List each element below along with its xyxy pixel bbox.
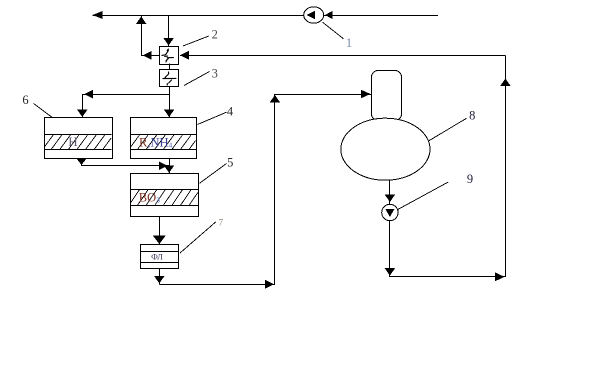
wire: vertical riser left of box 2: [141, 15, 143, 55]
leader line to label 8: [429, 118, 467, 141]
leader line to label 7: [180, 222, 216, 253]
filter vessel 4 (NH4-cation exchanger): [130, 118, 196, 159]
arrowhead: down into pump 9: [385, 195, 395, 202]
svg-text:1: 1: [346, 35, 353, 50]
leader line to label 6: [34, 104, 53, 118]
arrowhead: down into box 4: [164, 110, 174, 117]
filter vessel 5 (anion exchanger BO3): [130, 174, 198, 217]
deaerator tank 8 (ellipse): [341, 118, 430, 180]
svg-text:7: 7: [218, 218, 223, 228]
wire: bottom-left horizontal to riser: [159, 284, 275, 286]
wire: center riser up to deaerator feed: [274, 94, 276, 284]
svg-text:R,NH4: R,NH4: [139, 135, 173, 149]
wire: filter 7 outlet down: [159, 269, 161, 285]
arrowhead: left into box 2: [180, 51, 189, 60]
wire: branch drop into box 6: [82, 94, 84, 117]
svg-text:Н: Н: [68, 134, 77, 149]
wire: pump 9 discharge down: [389, 221, 391, 277]
wire: right riser up: [505, 55, 507, 276]
arrowhead: down into box 6: [77, 110, 87, 117]
arrowhead: right at right riser base: [495, 272, 504, 281]
leader line to label 3: [184, 72, 210, 86]
leader line to label 9: [398, 182, 449, 210]
arrowhead: right into column 8: [361, 90, 370, 98]
arrowhead: down from box 6: [76, 158, 86, 165]
wire: box 4 outlet down into box 5: [169, 158, 171, 173]
wire: drop from top line into box 2: [168, 15, 170, 46]
arrowhead: down into filter 7: [153, 235, 166, 244]
wire: branch to box 6 (horizontal): [82, 94, 169, 96]
arrowhead: left on branch: [84, 90, 93, 99]
arrowhead: down into box 5: [164, 165, 174, 172]
wire: box 6 outlet down: [81, 158, 83, 166]
arrowhead: down into box 2: [163, 38, 173, 45]
svg-text:5: 5: [227, 156, 233, 170]
leader line to label 5: [200, 164, 227, 184]
arrowhead: into pump 1 from right: [325, 11, 332, 19]
svg-text:8: 8: [469, 109, 475, 123]
arrowhead: up on center riser: [270, 95, 280, 102]
leader line to label 4: [198, 112, 227, 124]
wire: from box 3 down to box 4: [169, 86, 171, 117]
arrowhead: riser up into top line: [136, 17, 146, 24]
wire: connector box 2 to box 3: [169, 64, 171, 69]
arrowhead: down from filter 7: [154, 276, 164, 283]
wire: return line into box 2 right side: [180, 55, 505, 57]
svg-text:6: 6: [22, 93, 28, 107]
deaerator column head (rounded rect of 8): [372, 71, 402, 121]
arrowhead: down at discharge end: [385, 268, 395, 275]
filter 7 (FL mechanical filter): [140, 245, 179, 269]
filter vessel 6 (H-cation exchanger): [44, 118, 113, 159]
svg-text:3: 3: [212, 67, 218, 81]
wire: horizontal transfer to box 5 inlet: [82, 165, 170, 167]
svg-text:ФЛ: ФЛ: [151, 252, 163, 262]
leader line to label 1: [323, 22, 344, 39]
svg-text:9: 9: [467, 172, 473, 186]
wire: box 5 outlet down to filter 7: [159, 217, 161, 245]
apparatus box 2 (ejector/heater): [160, 47, 179, 65]
wire: box 2 left outlet: [141, 55, 159, 57]
wire: tank 8 outlet down: [389, 180, 391, 204]
arrowhead: right at riser base: [265, 280, 274, 289]
svg-text:4: 4: [227, 105, 234, 119]
wire: bottom-right horizontal to right riser: [390, 276, 506, 278]
wire: feed line into column 8: [275, 94, 371, 96]
pump 1 (circle with left triangle): [304, 7, 324, 23]
arrowhead: left on box 2 outlet: [143, 51, 152, 60]
apparatus box 3 (ejector/heater): [160, 70, 179, 87]
arrowhead: up on right riser: [500, 79, 510, 86]
arrowhead: right on transfer line: [159, 161, 168, 170]
pump 9 (circle with down triangle): [382, 204, 398, 220]
leader line to label 2: [183, 36, 209, 46]
arrowhead: top line left end (flow left): [93, 11, 103, 19]
wire: main top return line: [93, 15, 439, 17]
svg-text:2: 2: [212, 28, 218, 42]
